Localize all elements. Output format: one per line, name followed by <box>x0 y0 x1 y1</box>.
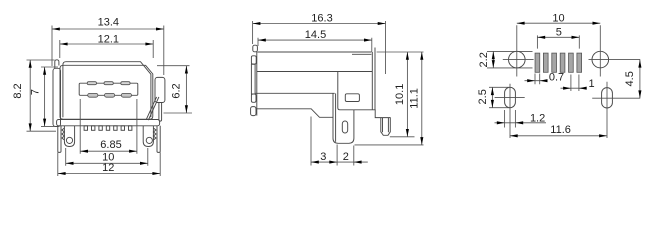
top seam near rear <box>352 53 371 55</box>
teeth row <box>84 126 132 131</box>
bottom-left outline with bend <box>255 109 333 118</box>
dim 7 <box>30 67 58 126</box>
svg-text:2: 2 <box>343 151 349 163</box>
svg-text:12.1: 12.1 <box>98 34 119 46</box>
front tab 1 <box>253 45 258 52</box>
svg-text:6.85: 6.85 <box>100 139 121 151</box>
top face <box>257 51 371 53</box>
svg-text:11.1: 11.1 <box>408 88 420 109</box>
dim 2.2 <box>478 51 533 68</box>
rear pin <box>381 117 391 135</box>
pin inner lines <box>383 118 389 133</box>
svg-text:1.2: 1.2 <box>530 112 545 124</box>
dim 16.3 <box>253 12 386 74</box>
svg-text:2.5: 2.5 <box>477 89 489 104</box>
front tab 3 <box>251 94 256 102</box>
svg-text:16.3: 16.3 <box>311 12 332 24</box>
right peg <box>143 126 153 147</box>
leg inner line <box>335 93 337 141</box>
left peg hole <box>66 137 72 143</box>
left wing <box>53 68 61 126</box>
right wing <box>155 77 165 102</box>
contact pads bottom row <box>88 93 132 97</box>
contact pads top row <box>87 82 130 85</box>
svg-text:0.7: 0.7 <box>549 72 564 84</box>
left peg barbs <box>62 128 65 140</box>
dim 14.5 <box>258 29 372 52</box>
svg-text:12: 12 <box>102 162 114 174</box>
shell flange contour <box>60 65 153 119</box>
front tab 4 <box>251 107 256 116</box>
leg slot <box>342 121 347 133</box>
latch window <box>345 94 359 102</box>
svg-text:13.4: 13.4 <box>98 17 119 29</box>
dim 13.4 <box>52 17 164 75</box>
svg-text:7: 7 <box>30 89 42 95</box>
lower line <box>255 92 334 94</box>
svg-text:3: 3 <box>320 151 326 163</box>
front band <box>251 64 255 94</box>
base plate <box>57 120 160 126</box>
hole right <box>592 51 609 68</box>
rear wall <box>372 48 375 110</box>
right leg <box>157 126 160 153</box>
dim 2 <box>343 146 362 166</box>
smd pads <box>535 53 582 72</box>
svg-text:5: 5 <box>556 27 562 39</box>
dim 12.1 <box>60 34 153 58</box>
svg-text:10: 10 <box>552 12 564 24</box>
dim 4.5 <box>624 60 641 98</box>
svg-text:14.5: 14.5 <box>305 29 326 41</box>
dim 8.2 <box>12 60 56 131</box>
oval left crosshair <box>495 84 525 138</box>
dim 1 <box>561 75 595 92</box>
svg-text:4.5: 4.5 <box>624 71 636 86</box>
oval pad left <box>505 87 516 107</box>
dim 11.6 <box>510 124 607 137</box>
left peg <box>64 126 74 147</box>
dim 10 top <box>517 12 601 24</box>
dim 6.2 <box>157 66 192 113</box>
bottom-right gusset lines <box>146 97 159 120</box>
hole right crosshair <box>589 25 641 76</box>
oval right crosshair <box>592 82 640 138</box>
hole left crosshair <box>503 25 534 76</box>
dim 10.1 <box>377 52 424 137</box>
dim 5 <box>537 27 579 49</box>
dim 2.5 <box>477 87 510 107</box>
oval pad right <box>602 88 613 108</box>
svg-text:11.6: 11.6 <box>550 124 571 136</box>
svg-text:10.1: 10.1 <box>394 84 406 105</box>
dim 6.85 <box>80 99 137 154</box>
left leg <box>58 126 61 153</box>
dim 1.2 <box>495 110 547 128</box>
hole left <box>509 51 526 68</box>
down leg <box>333 93 354 143</box>
svg-text:6.2: 6.2 <box>171 83 183 98</box>
dim 10 bottom <box>66 148 148 166</box>
mid line <box>257 71 373 73</box>
dim 3 <box>311 117 368 166</box>
left wing tip <box>55 60 59 69</box>
right peg barbs <box>153 128 156 140</box>
dim 11.1 <box>355 52 424 145</box>
dim 0.7 <box>525 72 565 85</box>
svg-text:1: 1 <box>588 78 594 90</box>
opening rect <box>79 83 138 95</box>
right peg hole <box>146 137 152 143</box>
dim 12 <box>58 152 160 176</box>
svg-text:2.2: 2.2 <box>478 52 490 67</box>
right solder tab <box>159 103 162 122</box>
front face column <box>256 52 258 116</box>
block bottom edge <box>354 110 390 118</box>
front tab 2 <box>251 56 256 64</box>
block front edge <box>338 72 354 110</box>
svg-text:8.2: 8.2 <box>12 83 24 98</box>
shell rim contour <box>63 62 151 117</box>
